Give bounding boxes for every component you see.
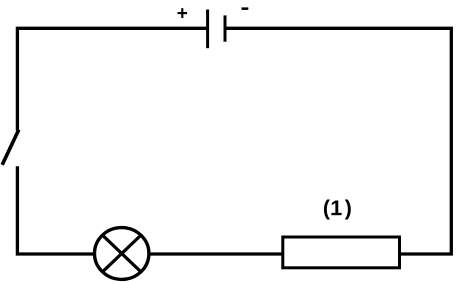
svg-text:1: 1 (330, 196, 342, 220)
lamp L1 (circle) (95, 228, 149, 280)
label - (negative terminal) (242, 7, 249, 9)
label (1) digit 1 foot serif (331, 213, 341, 215)
wire from lamp to resistor (148, 252, 285, 255)
switch S1 (open blade) (2, 130, 19, 165)
svg-text:+: + (177, 4, 188, 25)
lamp L1 cross stroke 1 (103, 235, 141, 272)
wire from battery positive plate, left along top, down left side to switch top contact (17, 28, 206, 130)
resistor R1 (rectangle) (283, 237, 400, 268)
battery B1 positive plate (long) (206, 10, 209, 49)
wire from switch bottom contact down to bottom-left corner and right to lamp (17, 166, 95, 254)
wire from battery negative plate, right along top, down right side, left to resistor (225, 28, 451, 254)
battery B1 negative plate (short) (224, 15, 227, 41)
svg-text:): ) (345, 196, 352, 220)
lamp L1 cross stroke 2 (103, 235, 141, 272)
